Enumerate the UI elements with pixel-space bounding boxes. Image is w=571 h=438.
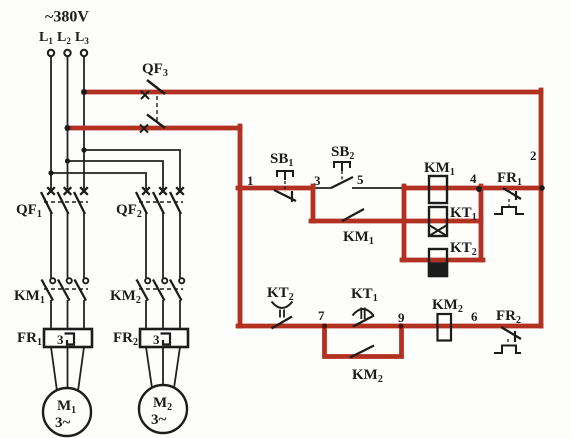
wire branch L3 to QF2 pole3 [84, 150, 180, 189]
contactor KM2 main contacts [137, 278, 185, 300]
FR2 heater symbol [161, 334, 171, 345]
wire red coil box right vertical [479, 186, 484, 260]
svg-text:QF3: QF3 [142, 61, 168, 79]
svg-text:7: 7 [318, 308, 325, 323]
FR1 heater symbol [65, 334, 75, 345]
contact KT1 delayed [353, 308, 375, 327]
pushbutton SB1 [274, 171, 296, 202]
label KT1 contact [351, 286, 378, 304]
wire red rung1 right part [404, 186, 541, 191]
wire red control line 2 from L2 [68, 126, 241, 131]
terminal L3 [81, 50, 87, 56]
label M1 3ph [55, 415, 71, 431]
node 9 junction [398, 323, 403, 328]
label L2 [57, 30, 71, 46]
svg-text:L1: L1 [39, 30, 53, 46]
label FR2 contact [496, 308, 521, 326]
contact KT2 delayed [272, 302, 293, 329]
svg-text:3: 3 [314, 173, 321, 188]
svg-text:KM2: KM2 [110, 288, 141, 306]
wire red drop at node 3 [311, 186, 316, 221]
label KM2 main [110, 288, 141, 306]
label KM1 main [14, 288, 45, 306]
svg-text:FR2: FR2 [496, 308, 521, 326]
label QF2 [116, 202, 142, 220]
svg-text:3: 3 [153, 332, 160, 347]
label SB1 [270, 151, 293, 169]
node 4 junction [476, 186, 482, 192]
wire red KM1 aux branch [311, 219, 481, 224]
wire branch L1 to QF2 pole1 [51, 173, 146, 189]
contact KM1 aux [342, 209, 364, 221]
node 5 [357, 172, 364, 187]
wire FR2 to motor M2 [146, 347, 180, 388]
label M2 3ph [151, 412, 167, 428]
svg-text:SB2: SB2 [331, 144, 354, 162]
label KM1 aux [343, 229, 374, 247]
SYMBOLS LAYER [41, 50, 524, 436]
label QF3 [142, 61, 168, 79]
RED HIGHLight LAYER [68, 90, 542, 357]
label FR2 [113, 330, 138, 348]
label KT2 coil [450, 240, 477, 258]
svg-text:5: 5 [357, 172, 364, 187]
svg-text:3~: 3~ [55, 415, 71, 431]
thermal relay FR1 box [44, 329, 92, 347]
label FR1 [17, 330, 42, 348]
svg-text:KT1: KT1 [351, 286, 378, 304]
label KT2 contact [267, 285, 294, 303]
node tap L2 red [65, 125, 71, 131]
svg-text:2: 2 [530, 148, 537, 163]
label ~380V [45, 9, 89, 26]
coil KM2 [438, 314, 452, 341]
wire phase L1 vertical [50, 57, 52, 189]
contact FR1 [494, 188, 524, 214]
svg-text:6: 6 [471, 309, 478, 324]
wire red KM2 aux branch [325, 326, 402, 357]
svg-text:9: 9 [398, 310, 405, 325]
wire KM2 to FR2 segments [146, 300, 180, 329]
coil KT2 [429, 249, 447, 276]
contactor KM1 main contacts [42, 278, 89, 300]
contact FR2 [494, 327, 521, 353]
node 7 junction [322, 323, 327, 328]
motor M2 circle [139, 385, 187, 433]
node branch L2 [65, 158, 70, 163]
svg-text:~380V: ~380V [45, 9, 89, 26]
svg-text:3: 3 [57, 332, 64, 347]
svg-text:KT1: KT1 [450, 205, 477, 223]
label KM1 coil [424, 160, 455, 178]
svg-text:FR1: FR1 [17, 330, 42, 348]
node 9 [398, 310, 405, 325]
label QF1 [16, 202, 42, 220]
svg-text:L2: L2 [57, 30, 71, 46]
node branch L1 [48, 170, 53, 175]
node 6 [471, 309, 478, 324]
label KM2 aux [352, 367, 383, 385]
label KT1 coil [450, 205, 477, 223]
node 3 [314, 173, 321, 188]
breaker QF3 link dashed [156, 96, 158, 124]
wire KM1 to FR1 segments [51, 300, 84, 329]
wire phase L2 vertical [67, 57, 69, 189]
svg-text:KM1: KM1 [14, 288, 45, 306]
label SB2 [331, 144, 354, 162]
wire phase L3 vertical [83, 57, 85, 189]
node branch L3 [81, 147, 86, 152]
wire red right rail node 2 [539, 90, 544, 326]
svg-text:SB1: SB1 [270, 151, 293, 169]
svg-text:1: 1 [247, 173, 254, 188]
coil KM1 [429, 176, 447, 203]
wire red KT2 branch bottom [402, 258, 483, 263]
svg-text:KM1: KM1 [424, 160, 455, 178]
breaker QF3 pole 2 [140, 115, 165, 133]
node tap L3 red [81, 89, 87, 95]
wire red left rail [238, 126, 243, 326]
node 7 [318, 308, 325, 323]
label M2 [153, 395, 172, 413]
wire red rung1 left part [238, 186, 313, 191]
svg-text:KM2: KM2 [432, 297, 463, 315]
svg-text:FR1: FR1 [497, 170, 522, 188]
node 1 [247, 173, 254, 188]
label FR1 heater 3 [57, 332, 64, 347]
thermal relay FR2 box [140, 329, 188, 347]
svg-text:KT2: KT2 [450, 240, 477, 258]
node 4 [470, 171, 477, 186]
label L1 [39, 30, 53, 46]
svg-text:3~: 3~ [151, 412, 167, 428]
breaker QF3 pole 1 [141, 80, 165, 99]
svg-text:QF2: QF2 [116, 202, 142, 220]
wire red rung 2 [238, 324, 541, 329]
label L3 [75, 30, 89, 46]
coil KT1 [429, 207, 447, 236]
node 2 junction [539, 185, 545, 191]
svg-text:4: 4 [470, 171, 477, 186]
wire branch L2 to QF2 pole2 [68, 161, 164, 189]
svg-text:L3: L3 [75, 30, 89, 46]
svg-text:FR2: FR2 [113, 330, 138, 348]
wire QF1 to KM1 segments [51, 213, 84, 278]
label M1 [57, 398, 76, 416]
terminal L2 [64, 50, 70, 56]
wire QF2 to KM2 segments [146, 213, 180, 278]
breaker QF1 poles [41, 187, 88, 214]
svg-text:KM1: KM1 [343, 229, 374, 247]
svg-text:KT2: KT2 [267, 285, 294, 303]
breaker QF2 poles [136, 187, 184, 214]
motor M1 circle [43, 388, 91, 436]
label KM2 coil [432, 297, 463, 315]
contact KM2 aux [350, 346, 374, 358]
node 2 [530, 148, 537, 163]
svg-text:QF1: QF1 [16, 202, 42, 220]
BLACK WIRES LAYER [51, 57, 541, 391]
pushbutton SB2 [331, 162, 353, 188]
wire control rung 1 [240, 187, 541, 189]
label FR1 contact [497, 170, 522, 188]
svg-text:KM2: KM2 [352, 367, 383, 385]
wire red control line 1 from L3 [84, 90, 541, 95]
wire FR1 to motor M1 [51, 347, 84, 391]
terminal L1 [48, 50, 54, 56]
label FR2 heater 3 [153, 332, 160, 347]
wire red coil box left vertical [402, 186, 407, 260]
